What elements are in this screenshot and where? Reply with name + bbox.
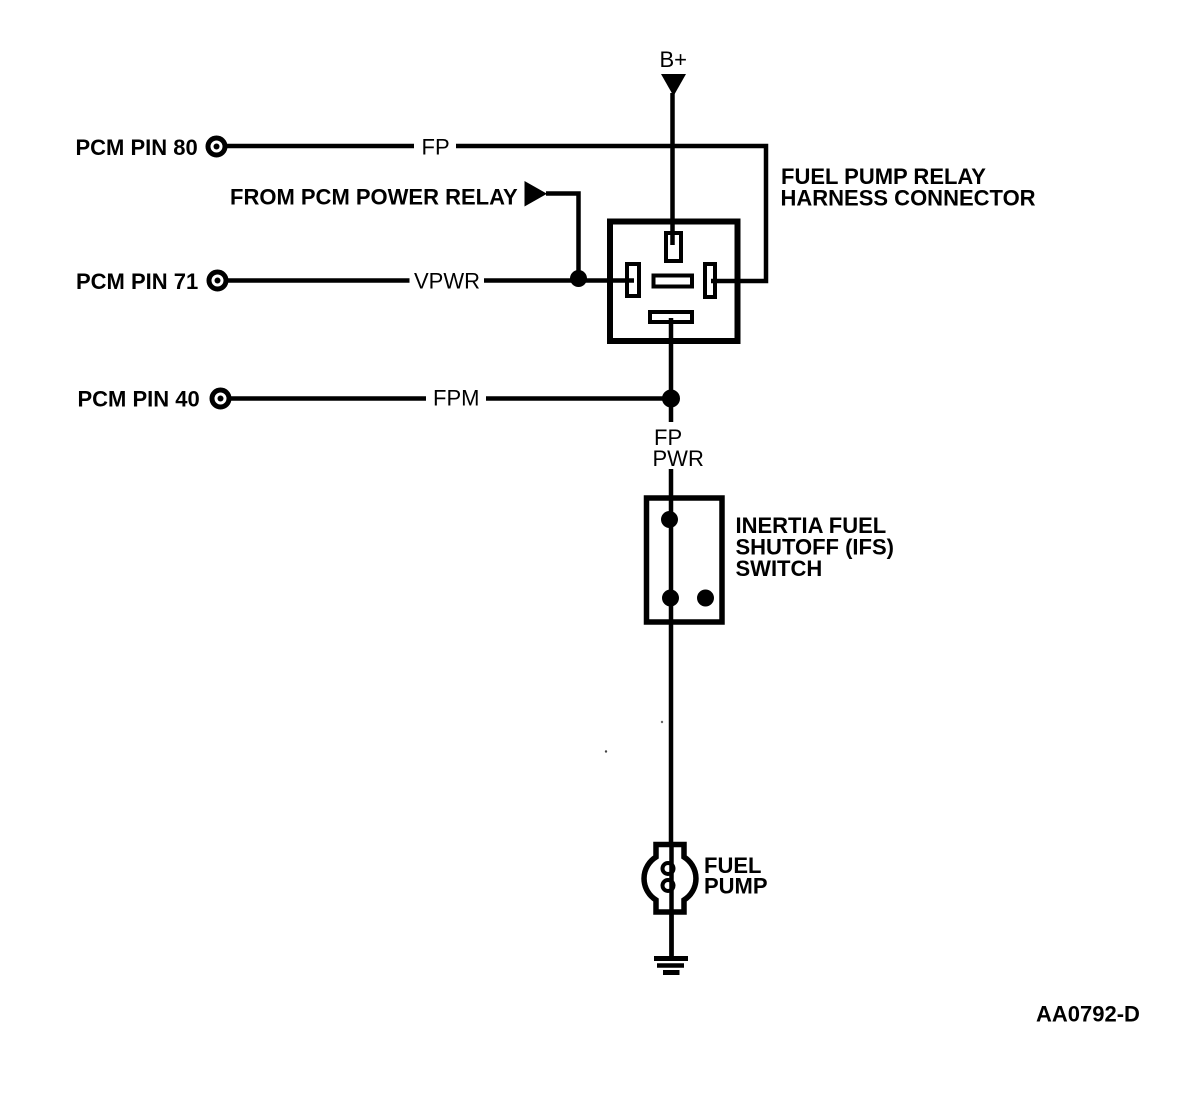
svg-text:PCM PIN 71: PCM PIN 71 (76, 269, 198, 294)
svg-text:PCM PIN 40: PCM PIN 40 (78, 387, 200, 412)
svg-text:FROM PCM POWER RELAY: FROM PCM POWER RELAY (230, 185, 518, 210)
svg-text:VPWR: VPWR (414, 269, 480, 294)
svg-text:FP: FP (422, 135, 450, 160)
svg-text:SWITCH: SWITCH (736, 556, 823, 581)
svg-text:PCM PIN 80: PCM PIN 80 (76, 135, 198, 160)
svg-text:PUMP: PUMP (704, 874, 768, 899)
svg-text:FPM: FPM (433, 386, 479, 411)
svg-text:AA0792-D: AA0792-D (1036, 1002, 1140, 1027)
svg-text:PWR: PWR (653, 446, 704, 471)
svg-text:B+: B+ (660, 47, 688, 72)
svg-text:HARNESS CONNECTOR: HARNESS CONNECTOR (781, 186, 1036, 211)
